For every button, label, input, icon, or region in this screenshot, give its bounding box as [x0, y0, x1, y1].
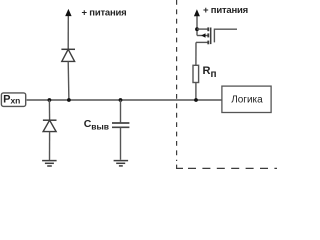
svg-text:Pxn: Pxn	[3, 94, 20, 106]
svg-text:Rп: Rп	[203, 65, 217, 80]
svg-text:Логика: Логика	[231, 94, 263, 105]
svg-text:+ питания: + питания	[82, 8, 127, 19]
svg-text:+ питания: + питания	[203, 5, 248, 16]
svg-text:Свыв: Свыв	[84, 118, 109, 131]
